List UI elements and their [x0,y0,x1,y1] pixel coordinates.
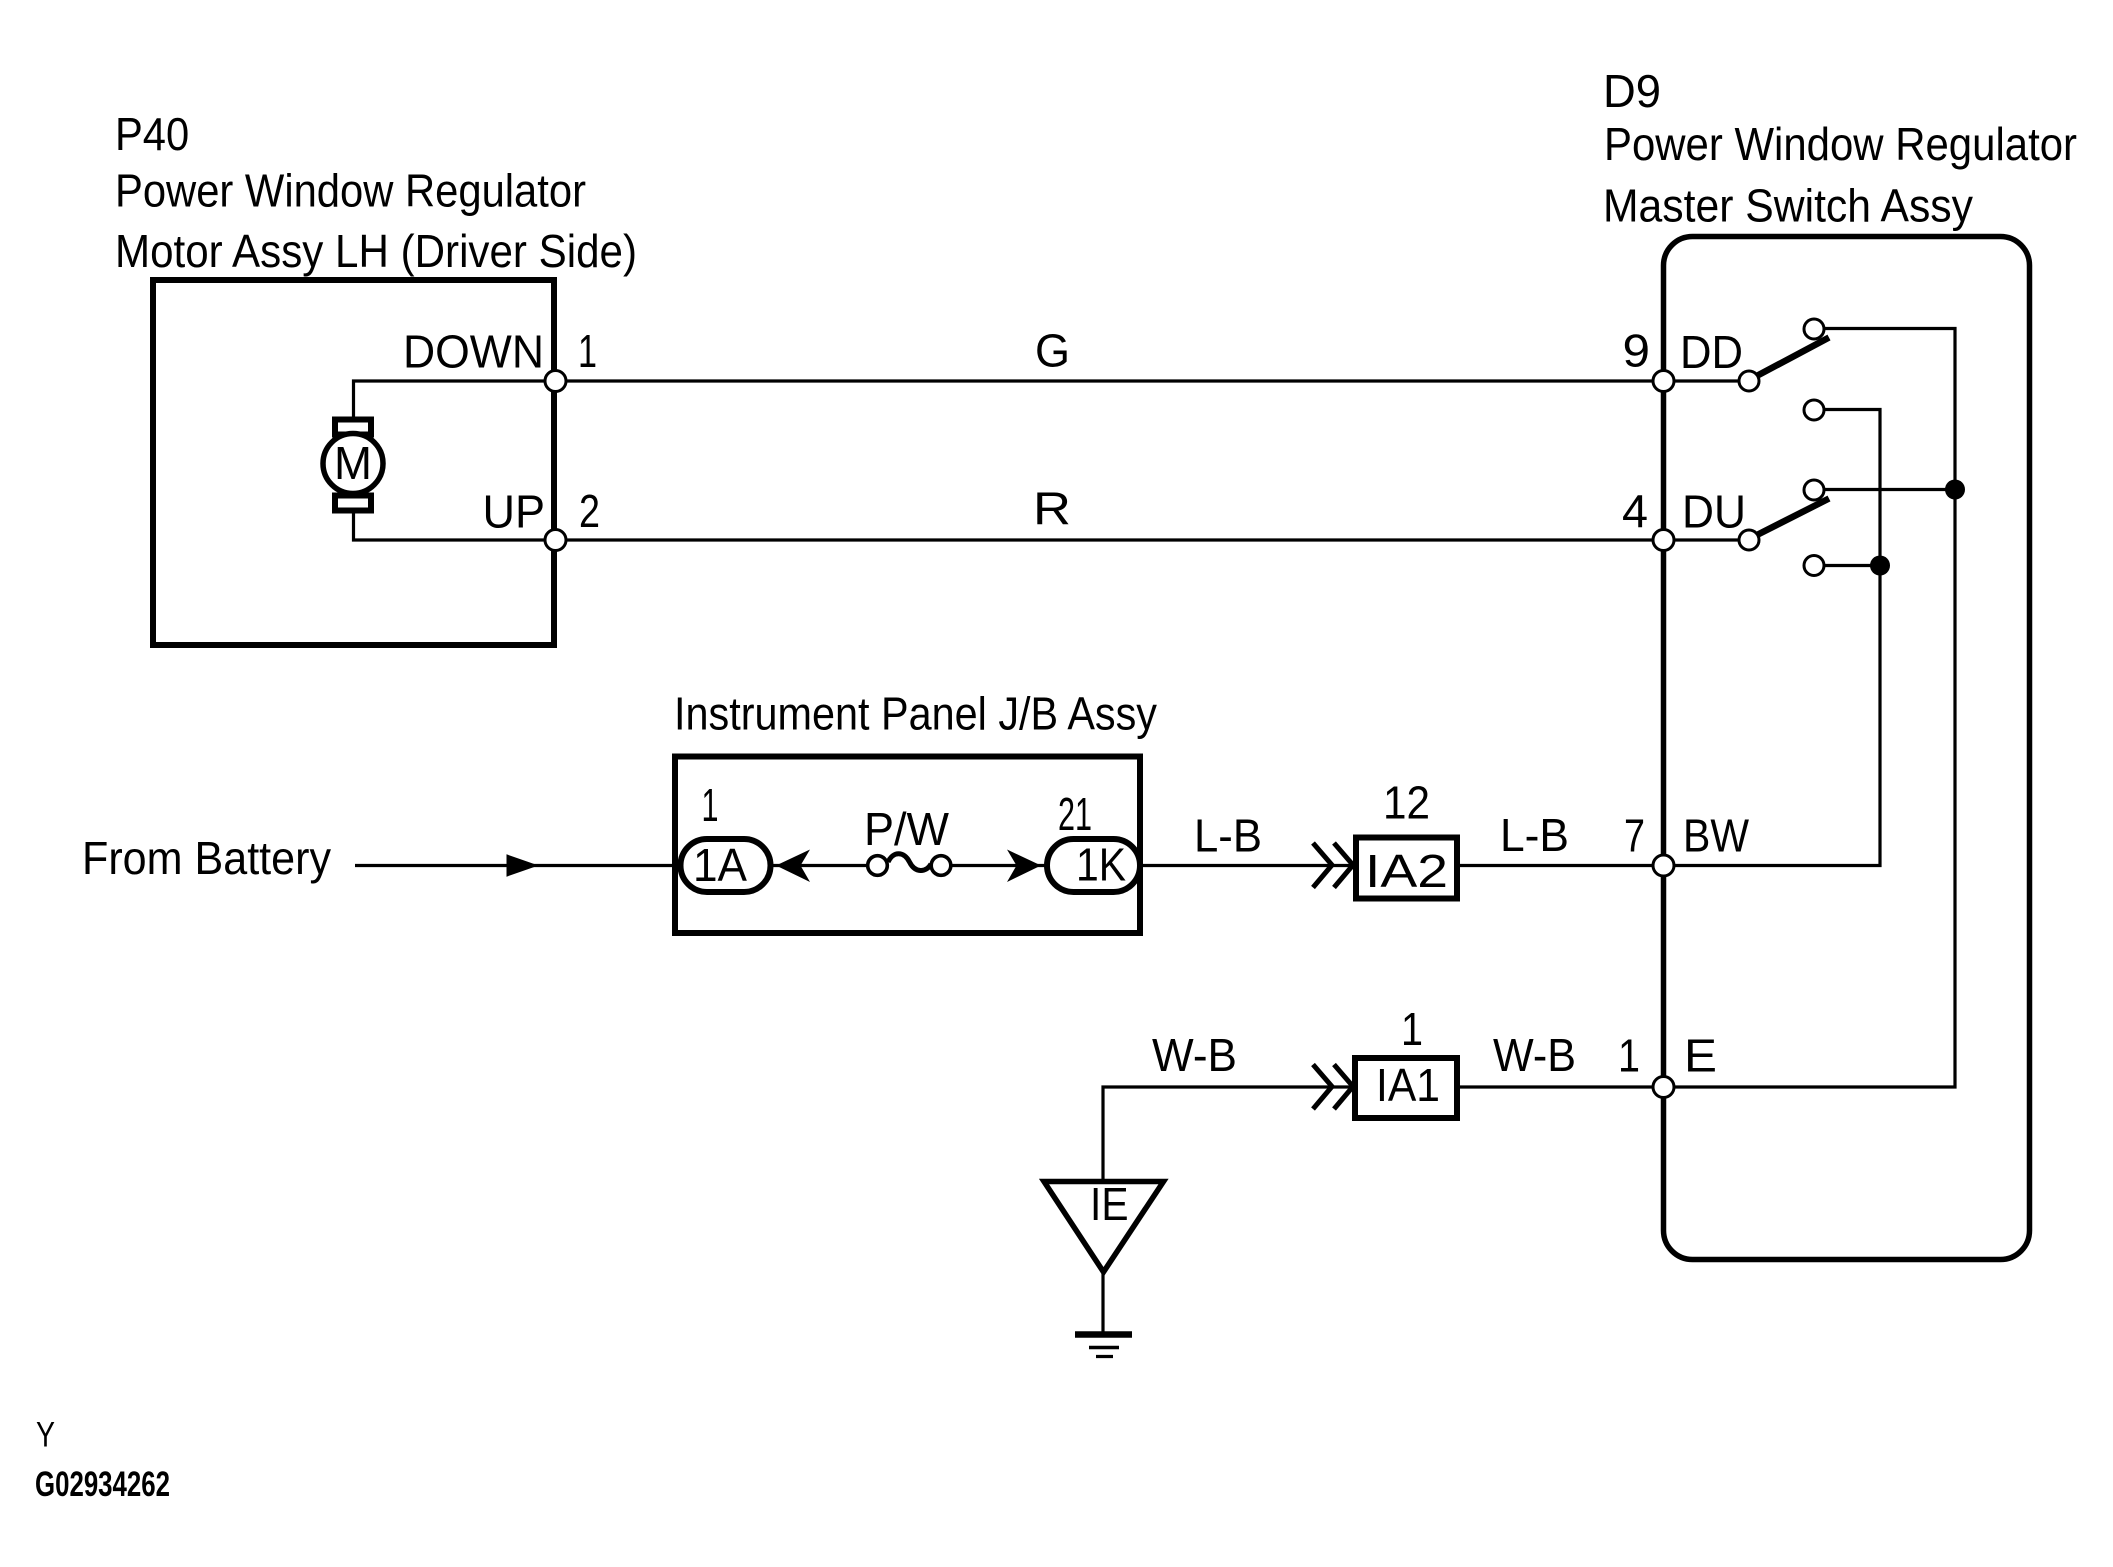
svg-text:1: 1 [1401,1003,1423,1055]
wire middle contact, down vertical B, to pin 7 (BW) [1457,410,1880,866]
connector box Instrument Panel J/B [675,757,1140,934]
arrow into 1K (right pointing) [1007,850,1041,883]
svg-text:BW: BW [1683,810,1750,862]
terminal pin E [1653,1077,1674,1098]
svg-text:12: 12 [1383,777,1430,829]
terminal pin 1 [545,371,566,392]
svg-text:IA1: IA1 [1376,1059,1440,1111]
svg-text:1: 1 [702,779,719,831]
svg-text:P/W: P/W [864,803,950,855]
wire J/B to IA2 [1143,864,1356,867]
svg-text:1A: 1A [693,839,747,891]
svg-text:1: 1 [578,325,597,377]
svg-text:G: G [1035,325,1070,377]
arrow on battery wire [507,854,539,876]
ground bar 3 [1096,1355,1113,1358]
svg-text:W-B: W-B [1493,1029,1576,1081]
connector IA1 [1355,1058,1457,1118]
wire R: pin 2 to pin 4 [556,538,1664,541]
ground symbol IE triangle [1044,1182,1164,1273]
contact DU common [1739,530,1759,550]
contact DD common [1739,371,1759,391]
svg-text:DD: DD [1680,326,1743,378]
wire motor bottom lead to pin 2 [354,503,557,540]
motor brush bottom [335,496,371,511]
svg-text:P40: P40 [115,108,189,160]
wire fuse internal left [770,864,870,867]
chevron pair at IA1 [1313,1065,1332,1110]
svg-text:DU: DU [1682,486,1746,538]
svg-text:1K: 1K [1076,839,1126,891]
wire DD throw, down vertical A, to pin E [1457,329,1955,1088]
terminal pin 4 [1653,530,1674,551]
svg-text:1: 1 [1618,1030,1640,1082]
junction dot DU throw / vertical A [1945,480,1965,500]
fuse terminal 1A (oval) [681,839,771,892]
svg-text:Power Window Regulator: Power Window Regulator [1604,118,2077,170]
svg-text:Master Switch Assy: Master Switch Assy [1603,180,1973,232]
terminal pin 7 [1653,855,1674,876]
svg-text:IE: IE [1090,1178,1129,1230]
svg-text:E: E [1684,1030,1717,1082]
contact middle (BW) [1804,400,1824,420]
wire G: pin 1 to pin 9 [556,379,1664,382]
terminal pin 2 [545,530,566,551]
svg-text:From Battery: From Battery [82,832,331,884]
svg-text:DOWN: DOWN [403,326,544,378]
svg-text:M: M [334,437,372,489]
svg-text:Motor Assy LH (Driver Side): Motor Assy LH (Driver Side) [115,225,637,277]
svg-text:D9: D9 [1603,65,1661,117]
connector IA2 [1356,838,1457,899]
wire DU throw to vertical A [1814,488,1955,491]
svg-text:UP: UP [483,486,546,538]
switch blade DD [1751,338,1829,380]
wire ground riser to IA1 [1103,1087,1356,1184]
motor M circle [323,434,383,494]
ground bar 2 [1089,1346,1119,1350]
fuse P/W left circle [868,856,888,876]
svg-text:L-B: L-B [1194,810,1262,862]
wire DU common to contact [1664,538,1750,541]
arrow into 1A (left pointing) [776,850,810,883]
wire motor top lead to pin 1 [354,381,557,425]
motor brush top [335,420,371,435]
svg-text:Instrument Panel J/B Assy: Instrument Panel J/B Assy [674,688,1157,740]
svg-text:IA2: IA2 [1365,845,1448,897]
svg-text:4: 4 [1622,485,1648,537]
svg-text:L-B: L-B [1500,809,1569,861]
ground bar 1 [1075,1331,1132,1338]
junction dot bottom contact / vertical B [1870,556,1890,576]
fuse terminal 1K (oval) [1047,839,1140,892]
svg-text:R: R [1033,483,1071,535]
wire IE stem [1101,1270,1104,1332]
connector box P40 Power Window Regulator Motor Assy [153,280,554,645]
switch blade DU [1751,499,1829,539]
terminal pin 9 [1653,371,1674,392]
svg-text:2: 2 [579,485,600,537]
svg-text:9: 9 [1623,325,1651,377]
wire DD common to contact [1664,379,1750,382]
svg-text:G02934262: G02934262 [35,1465,170,1504]
wire From Battery to J/B [355,864,675,867]
wire fuse internal right [948,864,1048,867]
connector box D9 Master Switch Assy (rounded) [1664,237,2030,1260]
svg-text:Power Window Regulator: Power Window Regulator [115,165,586,217]
svg-text:W-B: W-B [1152,1029,1237,1081]
chevron pair at IA2 [1313,843,1332,888]
wire bottom contact to vertical B [1814,564,1880,567]
fuse P/W right circle [931,856,951,876]
svg-text:21: 21 [1058,788,1092,840]
svg-text:7: 7 [1624,810,1645,862]
fuse P/W S-curve [888,854,931,871]
contact DU throw [1804,480,1824,500]
contact DD throw [1804,319,1824,339]
svg-text:Y: Y [36,1416,55,1455]
contact bottom (to BW) [1804,556,1824,576]
